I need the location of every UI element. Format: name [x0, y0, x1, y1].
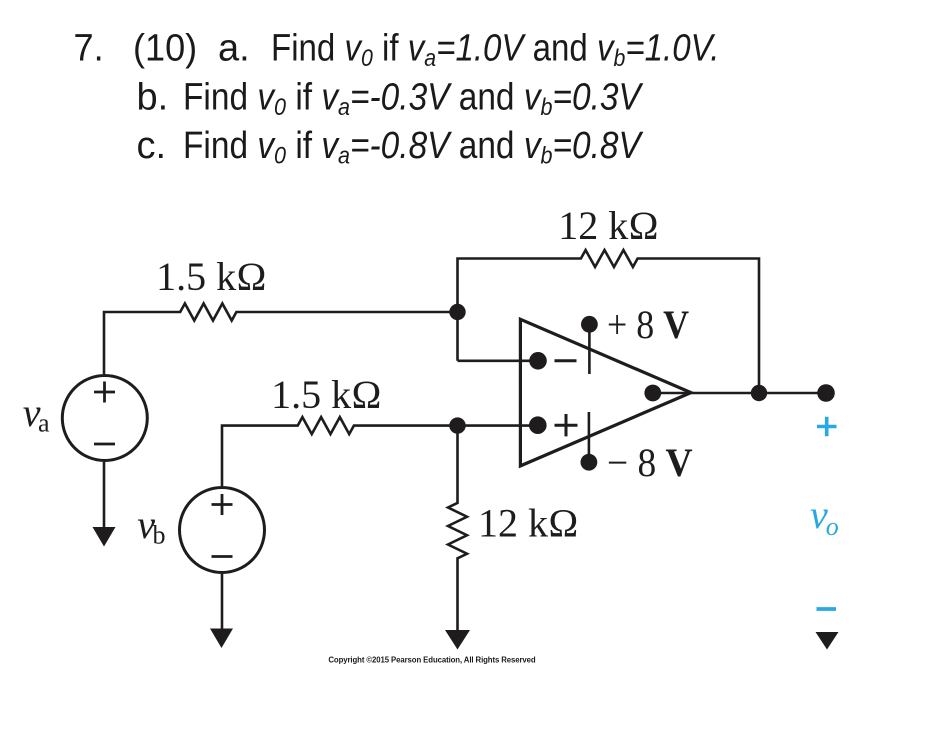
svg-text:− 8 V: − 8 V [607, 440, 693, 485]
svg-text:12 kΩ: 12 kΩ [558, 203, 659, 248]
svg-text:1.5 kΩ: 1.5 kΩ [156, 254, 267, 299]
svg-text:12 kΩ: 12 kΩ [478, 501, 579, 546]
svg-text:1.5 kΩ: 1.5 kΩ [271, 372, 382, 417]
svg-text:Find v0 if va=-0.8V and vb=0.8: Find v0 if va=-0.8V and vb=0.8V [183, 124, 644, 169]
svg-text:7.: 7. [74, 26, 104, 69]
svg-text:c.: c. [137, 125, 167, 167]
svg-text:b.: b. [137, 76, 169, 118]
svg-text:Find v0 if va=1.0V and vb=1.0V: Find v0 if va=1.0V and vb=1.0V. [271, 26, 719, 71]
svg-text:+ 8 V: + 8 V [607, 302, 689, 347]
svg-text:Copyright ©2015 Pearson Educat: Copyright ©2015 Pearson Education, All R… [328, 656, 535, 665]
svg-text:Find v0 if va=-0.3V and vb=0.3: Find v0 if va=-0.3V and vb=0.3V [183, 75, 644, 120]
svg-text:a.: a. [218, 28, 250, 70]
svg-text:(10): (10) [133, 26, 197, 69]
